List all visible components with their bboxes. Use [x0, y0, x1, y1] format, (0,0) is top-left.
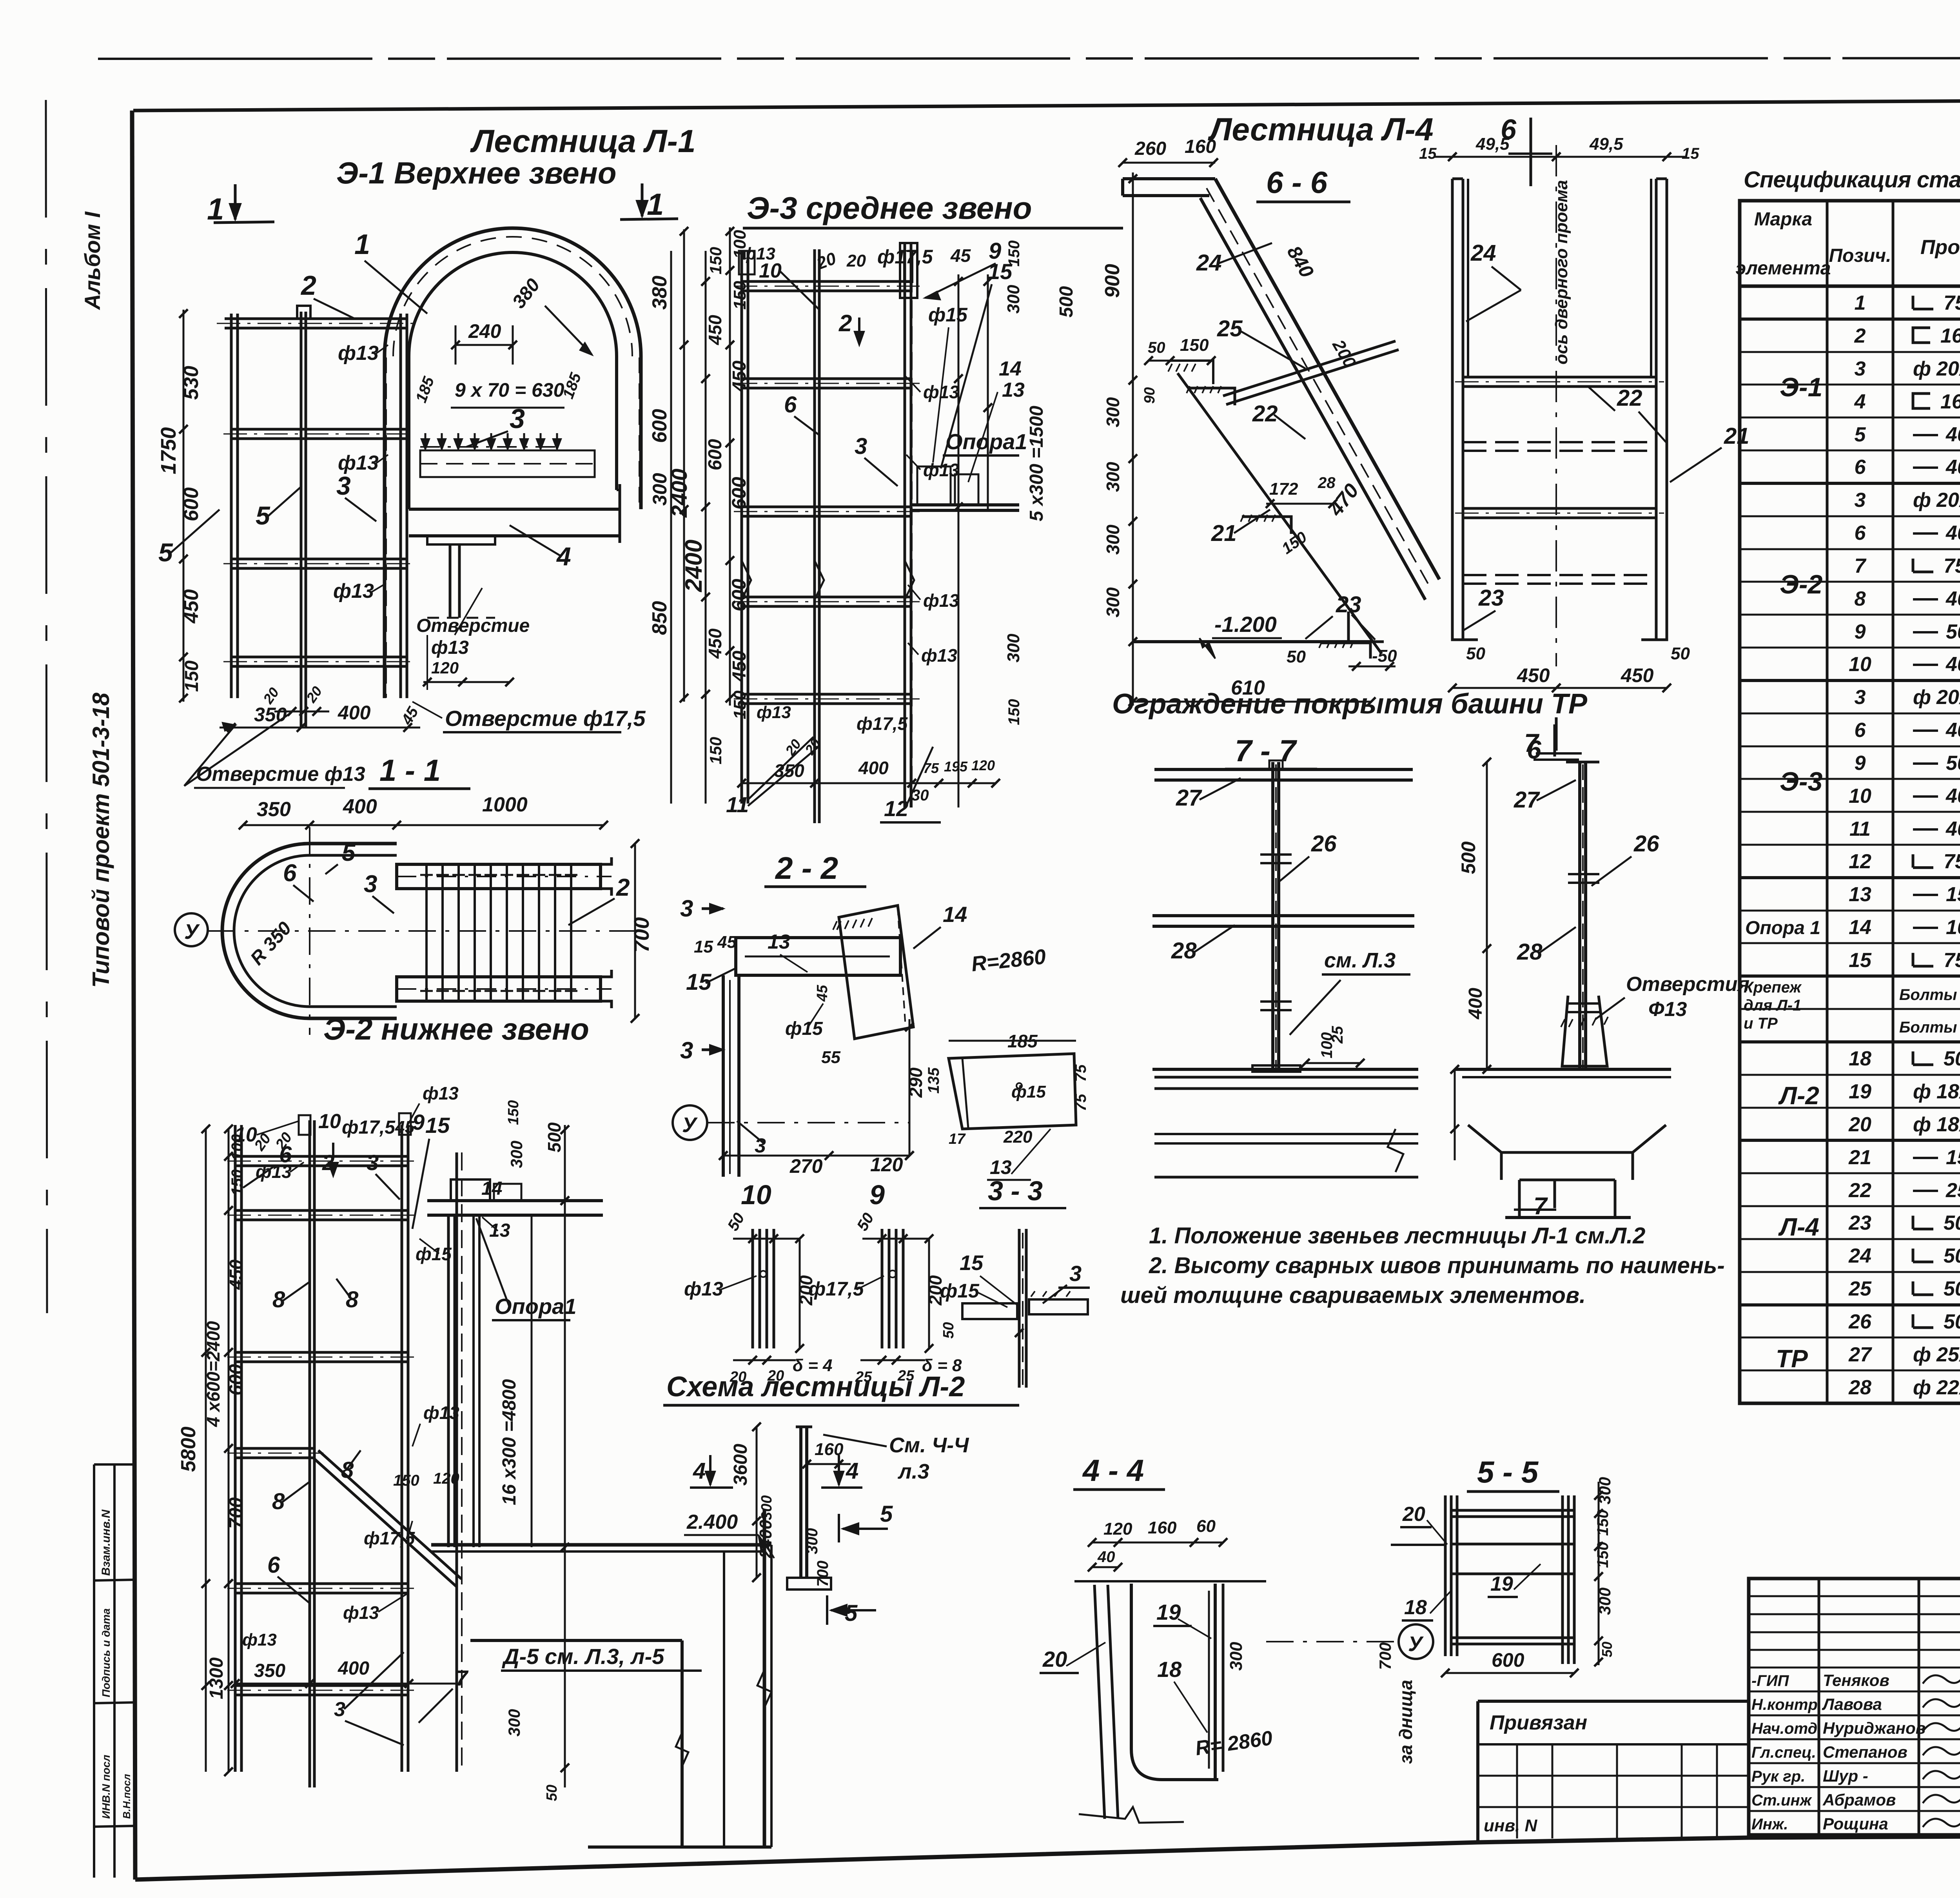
- E-2 right dim lines: [564, 1125, 566, 1787]
- L-4 step 2: [1242, 517, 1291, 534]
- svg-text:20: 20: [1042, 1647, 1067, 1671]
- svg-text:3: 3: [364, 871, 377, 898]
- svg-text:ф13: ф13: [242, 1630, 277, 1649]
- svg-text:1 - 1: 1 - 1: [379, 753, 441, 788]
- E-3 right dim lines: [958, 274, 960, 807]
- 7-7 post: [1271, 762, 1274, 1071]
- svg-text:Н.контр: Н.контр: [1751, 1696, 1818, 1713]
- svg-text:1: 1: [647, 187, 664, 221]
- svg-text:ось дверного проема: ось дверного проема: [1552, 180, 1571, 365]
- E-2 opora post: [447, 1215, 450, 1547]
- svg-text:15: 15: [1682, 145, 1699, 162]
- svg-text:160: 160: [815, 1440, 844, 1459]
- svg-text:Подпись и дата: Подпись и дата: [100, 1608, 112, 1697]
- svg-text:14: 14: [1849, 916, 1871, 939]
- elevation rail 1: [1463, 376, 1656, 379]
- L-2 dim left: [756, 1427, 758, 1578]
- main frame left: [132, 111, 135, 1880]
- E-2 right rail: [401, 1125, 403, 1772]
- svg-text:600: 600: [1492, 1649, 1524, 1671]
- section 3-3 bars: [1018, 1229, 1021, 1388]
- coordination circle U 4-4: [1399, 1624, 1433, 1659]
- svg-text:19: 19: [1849, 1080, 1871, 1103]
- svg-text:9: 9: [1855, 752, 1866, 775]
- svg-text:ф13: ф13: [423, 1083, 459, 1103]
- E-3 rail top caps: [739, 251, 755, 274]
- TR right post: [1578, 762, 1581, 1069]
- svg-text:1300: 1300: [206, 1657, 227, 1699]
- svg-text:21: 21: [1211, 521, 1237, 546]
- svg-text:В.Н.посл: В.Н.посл: [121, 1774, 132, 1819]
- E-3 middle stile: [813, 249, 816, 823]
- 4-4 channel element 18: [1131, 1584, 1218, 1780]
- svg-text:Инж.: Инж.: [1751, 1816, 1788, 1833]
- main frame bottom: [135, 1834, 1960, 1880]
- 5-5 left reference line: [1391, 1544, 1445, 1546]
- svg-text:28: 28: [1318, 474, 1336, 492]
- svg-text:ф: ф: [1913, 1080, 1931, 1103]
- svg-text:195: 195: [944, 758, 968, 775]
- TR right foundation: [1455, 1068, 1671, 1071]
- 4-4 strip element 20: [1094, 1585, 1105, 1819]
- svg-text:24: 24: [1470, 240, 1496, 266]
- 5-5 bar 2: [1451, 1543, 1574, 1546]
- svg-text:500: 500: [1056, 286, 1077, 318]
- svg-text:4 - 4: 4 - 4: [1082, 1453, 1144, 1488]
- svg-text:350: 350: [257, 798, 291, 821]
- svg-text:ф15: ф15: [785, 1018, 823, 1039]
- margin stamp boxes bottom-left: [93, 1464, 95, 1878]
- svg-text:13: 13: [489, 1220, 510, 1241]
- svg-text:ф: ф: [1913, 1376, 1931, 1399]
- svg-text:10: 10: [1849, 653, 1871, 676]
- svg-text:40×4: 40×4: [1945, 719, 1960, 742]
- svg-text:75×6: 75×6: [1944, 850, 1960, 873]
- svg-text:18АI: 18АI: [1936, 1113, 1960, 1136]
- 5-5 bar 4: [1451, 1637, 1574, 1639]
- svg-text:150: 150: [706, 247, 725, 274]
- svg-text:18АI: 18АI: [1936, 1080, 1960, 1103]
- svg-text:ф13: ф13: [431, 637, 469, 658]
- svg-text:2: 2: [300, 270, 316, 301]
- axis line door: [1555, 145, 1557, 666]
- svg-text:50: 50: [1599, 1642, 1615, 1657]
- dim 50 150: [1149, 360, 1211, 362]
- svg-text:Э-2: Э-2: [1780, 570, 1823, 599]
- svg-text:120: 120: [1103, 1519, 1132, 1539]
- svg-text:40×4: 40×4: [1945, 785, 1960, 807]
- svg-text:14: 14: [943, 902, 967, 927]
- dim 9x70=630: [451, 407, 564, 409]
- svg-text:28: 28: [1517, 939, 1543, 965]
- svg-text:1750: 1750: [157, 427, 180, 474]
- E-3 right rail: [904, 243, 906, 807]
- E-2 left rail: [234, 1125, 237, 1772]
- svg-text:3: 3: [510, 403, 525, 434]
- svg-text:18: 18: [1157, 1657, 1182, 1682]
- arch left leg: [383, 356, 387, 698]
- svg-text:22АI: 22АI: [1936, 1376, 1960, 1399]
- E-3 left dim chain: [705, 251, 707, 804]
- svg-text:270: 270: [789, 1155, 823, 1177]
- svg-text:60: 60: [1196, 1517, 1216, 1536]
- svg-text:50: 50: [1466, 644, 1485, 663]
- svg-text:10: 10: [741, 1179, 771, 1210]
- svg-text:Отверстие ф17,5: Отверстие ф17,5: [445, 706, 646, 731]
- E-2 middle stile: [309, 1120, 311, 1787]
- svg-text:-ГИП: -ГИП: [1751, 1672, 1789, 1689]
- svg-text:50×8: 50×8: [1946, 752, 1960, 775]
- E-1 right dim line inner: [683, 229, 685, 702]
- svg-text:2: 2: [838, 310, 852, 336]
- svg-text:Л-4: Л-4: [1778, 1213, 1819, 1241]
- svg-text:400: 400: [338, 702, 371, 724]
- 7-7 breaks on post: [1260, 855, 1292, 863]
- E-2 left dim chain: [205, 1129, 207, 1772]
- E-3 left rail: [740, 251, 743, 804]
- svg-text:700: 700: [1376, 1642, 1394, 1670]
- svg-text:28: 28: [1171, 938, 1197, 964]
- svg-text:Типовой проект 501-3-18: Типовой проект 501-3-18: [88, 692, 114, 988]
- svg-text:ф13: ф13: [923, 382, 959, 402]
- svg-text:ф: ф: [1913, 686, 1931, 709]
- dim 700 right: [634, 843, 636, 1019]
- svg-text:Нуриджанов: Нуриджанов: [1823, 1719, 1926, 1737]
- E-2 rung 3: [235, 1351, 409, 1354]
- svg-text:150×6: 150×6: [1946, 1146, 1960, 1169]
- privyazan box: [1478, 1700, 1749, 1703]
- svg-text:9 х 70 = 630: 9 х 70 = 630: [455, 379, 564, 401]
- svg-text:19: 19: [1490, 1573, 1513, 1595]
- svg-text:9: 9: [1855, 621, 1866, 643]
- L-4 elevation ladder right rails: [1451, 179, 1454, 640]
- 1-1 horseshoe inner: [234, 855, 397, 1007]
- TR gusset trapezoid: [1562, 996, 1607, 1066]
- svg-text:260: 260: [1134, 138, 1166, 159]
- anchors row element 3: [420, 446, 559, 448]
- svg-text:Степанов: Степанов: [1823, 1743, 1907, 1761]
- TR right post breaks: [1568, 874, 1599, 883]
- svg-text:40×4: 40×4: [1945, 522, 1960, 544]
- svg-text:23: 23: [1336, 592, 1361, 617]
- svg-text:ф: ф: [1913, 1343, 1931, 1366]
- svg-text:75×6: 75×6: [1944, 949, 1960, 972]
- coordination circle U 2-2: [673, 1105, 707, 1140]
- svg-text:7 - 7: 7 - 7: [1235, 733, 1298, 768]
- svg-text:100×10: 100×10: [1946, 916, 1960, 939]
- E-1 ladder middle stile: [300, 312, 303, 728]
- svg-text:21: 21: [1848, 1146, 1871, 1169]
- svg-text:100: 100: [1318, 1032, 1336, 1058]
- svg-text:Шур -: Шур -: [1823, 1767, 1868, 1785]
- section 9 bars: [881, 1229, 884, 1348]
- svg-text:Э-3: Э-3: [1780, 767, 1823, 797]
- 2-2 gusset 14 slanted: [839, 905, 913, 1039]
- svg-text:4: 4: [846, 1458, 858, 1484]
- elevation rail 3: [1463, 507, 1656, 510]
- svg-text:Рощина: Рощина: [1823, 1815, 1888, 1833]
- svg-text:15: 15: [694, 937, 713, 956]
- 1-1 rungs plan: [425, 864, 428, 1002]
- svg-text:40×4: 40×4: [1945, 653, 1960, 676]
- svg-text:150: 150: [1005, 699, 1023, 725]
- svg-text:за днища: за днища: [1396, 1680, 1416, 1764]
- svg-text:14: 14: [481, 1178, 502, 1199]
- svg-text:150: 150: [1005, 240, 1023, 267]
- svg-text:1. Положение звеньев лестницы: 1. Положение звеньев лестницы Л-1 см.Л.2: [1149, 1223, 1645, 1248]
- svg-text:700: 700: [226, 1497, 247, 1529]
- svg-text:13: 13: [1849, 883, 1871, 906]
- 1-1 top dim line: [243, 824, 604, 826]
- svg-text:3600: 3600: [730, 1444, 751, 1486]
- svg-text:380: 380: [648, 276, 671, 310]
- svg-text:ф17,5: ф17,5: [857, 713, 908, 734]
- E-2 rung 4: [235, 1447, 316, 1450]
- L-4 small hatch mid: [1170, 361, 1213, 384]
- svg-text:300: 300: [1595, 1477, 1614, 1504]
- svg-text:40×4: 40×4: [1945, 588, 1960, 610]
- bar element 4 horizontal: [409, 508, 620, 511]
- dim 20 20 bottom stile: [274, 711, 329, 713]
- svg-text:300: 300: [1103, 462, 1123, 492]
- svg-text:ф13: ф13: [921, 645, 957, 666]
- E-1 rung at 1426: [231, 558, 408, 561]
- svg-text:15: 15: [1849, 949, 1872, 972]
- E-3 bottom cluster: [742, 782, 996, 784]
- 7-7 mid bar 28: [1152, 914, 1414, 917]
- svg-text:50×8: 50×8: [1946, 621, 1960, 643]
- svg-text:ф15: ф15: [940, 1280, 980, 1302]
- svg-text:50×5: 50×5: [1944, 1310, 1960, 1333]
- svg-text:19: 19: [1156, 1600, 1181, 1624]
- L-4 step 1: [1188, 388, 1235, 405]
- svg-text:600: 600: [226, 1364, 247, 1395]
- svg-text:18: 18: [1404, 1596, 1427, 1619]
- E-2 bottom wall lines: [588, 1845, 771, 1849]
- svg-text:45: 45: [395, 1118, 414, 1137]
- L-4 top channel: [1123, 177, 1215, 180]
- svg-text:У: У: [682, 1113, 698, 1137]
- svg-text:15: 15: [1419, 145, 1437, 162]
- svg-text:6: 6: [784, 392, 797, 417]
- svg-text:5: 5: [342, 839, 356, 866]
- svg-text:8: 8: [1855, 588, 1866, 610]
- E-2 cage stile dashed: [456, 1152, 458, 1772]
- E-2 rung 2: [235, 1209, 409, 1212]
- svg-text:3: 3: [855, 434, 867, 459]
- svg-text:20: 20: [846, 251, 866, 270]
- svg-text:9: 9: [869, 1179, 885, 1210]
- 4-4 rod element 19: [1208, 1591, 1210, 1769]
- svg-text:2: 2: [1854, 325, 1866, 347]
- svg-text:450: 450: [705, 315, 725, 345]
- L-2 base plate: [787, 1578, 831, 1590]
- elevation top dims: [1435, 156, 1686, 158]
- E-3 rung 3: [742, 506, 912, 508]
- svg-text:Отверстие ф13: Отверстие ф13: [196, 763, 365, 786]
- svg-text:290: 290: [906, 1067, 926, 1098]
- dashed rectangle grating: [420, 450, 595, 477]
- svg-text:300: 300: [1004, 633, 1023, 662]
- section 10 bars: [751, 1229, 754, 1348]
- svg-text:17: 17: [949, 1131, 966, 1147]
- 5-5 right post: [1561, 1495, 1564, 1664]
- svg-text:11: 11: [726, 792, 749, 817]
- 2-2 horizontal channel: [736, 938, 900, 975]
- svg-text:20: 20: [1402, 1503, 1425, 1526]
- svg-text:22: 22: [1252, 401, 1278, 426]
- svg-text:172: 172: [1269, 479, 1298, 499]
- table header bottom line: [1740, 285, 1960, 288]
- svg-text:700: 700: [814, 1560, 831, 1587]
- section 10 dims: [733, 1238, 800, 1240]
- svg-text:700: 700: [630, 917, 653, 953]
- svg-text:1000: 1000: [482, 793, 528, 816]
- E-2 rung 1: [235, 1155, 409, 1158]
- svg-text:20АI: 20АI: [1936, 489, 1960, 512]
- 4-4 reference line: [1074, 1580, 1266, 1582]
- 1-1 plan bottom channel: [397, 977, 601, 1001]
- title block outer: [1749, 1579, 1960, 1835]
- svg-text:Марка: Марка: [1754, 209, 1812, 230]
- svg-text:160: 160: [1148, 1518, 1177, 1537]
- E-2 bottom dim: [235, 1683, 462, 1685]
- svg-text:6: 6: [279, 1142, 292, 1167]
- E-2 rung 5: [235, 1582, 409, 1585]
- svg-text:24: 24: [1196, 250, 1222, 276]
- svg-text:7: 7: [456, 1666, 469, 1690]
- plate 13 detail: [949, 1054, 1076, 1129]
- 1-1 vertical centerline: [309, 827, 310, 1035]
- svg-text:6: 6: [1855, 456, 1866, 479]
- svg-text:ф15: ф15: [928, 304, 968, 326]
- svg-text:27: 27: [1514, 787, 1540, 813]
- svg-text:20АI: 20АI: [1936, 686, 1960, 709]
- svg-text:16: 16: [1940, 325, 1960, 347]
- svg-text:120: 120: [870, 1154, 903, 1176]
- svg-text:ф13: ф13: [338, 342, 379, 365]
- E-3 rung 1: [742, 280, 912, 283]
- svg-text:Позич.: Позич.: [1829, 245, 1891, 266]
- svg-text:40×4: 40×4: [1945, 456, 1960, 479]
- svg-text:Э-2 нижнее звено: Э-2 нижнее звено: [323, 1012, 589, 1046]
- svg-text:для Л-1: для Л-1: [1744, 997, 1801, 1014]
- svg-text:600: 600: [705, 439, 726, 470]
- svg-text:45: 45: [717, 933, 737, 952]
- svg-text:45: 45: [814, 985, 831, 1002]
- svg-text:55: 55: [821, 1048, 840, 1067]
- svg-text:450: 450: [180, 589, 203, 624]
- svg-text:Отверстия: Отверстия: [1626, 973, 1749, 996]
- svg-text:У: У: [184, 920, 200, 944]
- svg-text:ф17,5: ф17,5: [364, 1528, 416, 1548]
- 5-5 bar 1: [1451, 1509, 1574, 1512]
- svg-text:40: 40: [1097, 1548, 1115, 1566]
- L-4 bottom dims: [1348, 666, 1396, 668]
- svg-text:15: 15: [425, 1113, 450, 1138]
- svg-text:Ф13: Ф13: [1648, 998, 1687, 1021]
- svg-text:27: 27: [1176, 785, 1202, 811]
- svg-text:3: 3: [680, 895, 693, 922]
- svg-text:Схема лестницы Л-2: Схема лестницы Л-2: [666, 1371, 965, 1403]
- left sheet edge line: [46, 100, 47, 1313]
- svg-text:23: 23: [1848, 1212, 1871, 1234]
- E-1 ladder right rail: [399, 314, 402, 698]
- 7-7 base plate: [1252, 1065, 1300, 1072]
- svg-text:850: 850: [648, 601, 671, 635]
- svg-text:450: 450: [226, 1259, 246, 1290]
- svg-text:135: 135: [925, 1067, 942, 1094]
- svg-text:6 - 6: 6 - 6: [1266, 165, 1328, 200]
- svg-text:см. Л.3: см. Л.3: [1324, 949, 1396, 972]
- svg-text:450: 450: [1517, 664, 1550, 686]
- table row lines: [1740, 318, 1960, 320]
- svg-text:Рук гр.: Рук гр.: [1751, 1768, 1805, 1785]
- svg-text:150: 150: [706, 737, 725, 764]
- svg-text:90: 90: [1142, 387, 1158, 404]
- svg-text:350: 350: [254, 1660, 285, 1681]
- svg-text:75: 75: [1072, 1094, 1089, 1111]
- 5-5 left post: [1444, 1495, 1447, 1656]
- svg-text:12: 12: [884, 796, 908, 821]
- svg-text:530: 530: [180, 366, 203, 400]
- section mark 1 left: [234, 184, 237, 220]
- svg-text:ф13: ф13: [338, 452, 379, 474]
- svg-text:160: 160: [1185, 136, 1216, 157]
- svg-text:2 - 2: 2 - 2: [775, 851, 838, 885]
- 2-2 weld hatch: [833, 918, 872, 930]
- 5-5 dims right: [1598, 1482, 1600, 1665]
- svg-text:1: 1: [354, 229, 370, 260]
- svg-text:300: 300: [505, 1709, 523, 1737]
- table outer grid: [1740, 201, 1960, 1403]
- svg-text:3: 3: [1855, 489, 1866, 512]
- title block signature rows: [1749, 1691, 1960, 1693]
- svg-text:инв. N: инв. N: [1484, 1816, 1537, 1835]
- E-3 cage dash: [911, 274, 913, 807]
- E-2 opora bracket: [427, 1199, 603, 1202]
- L-4 step 3: [1320, 643, 1370, 659]
- svg-text:11: 11: [1849, 818, 1871, 840]
- elevation rail 4: [1463, 574, 1656, 576]
- svg-text:Крепеж: Крепеж: [1744, 979, 1802, 996]
- 2-2 vertical leg: [722, 975, 725, 1177]
- svg-text:Альбом I: Альбом I: [80, 211, 105, 310]
- svg-text:1: 1: [207, 192, 224, 226]
- svg-text:300: 300: [1227, 1642, 1246, 1671]
- svg-text:3: 3: [336, 471, 351, 500]
- svg-text:Ограждение покрытия башни ТР: Ограждение покрытия башни ТР: [1112, 688, 1588, 720]
- svg-text:У: У: [1408, 1632, 1424, 1656]
- svg-text:ф17,5: ф17,5: [342, 1117, 396, 1138]
- svg-text:300: 300: [1103, 587, 1123, 617]
- svg-text:16 х300 =4800: 16 х300 =4800: [499, 1379, 520, 1505]
- svg-text:13: 13: [1002, 379, 1025, 401]
- svg-text:25: 25: [1848, 1277, 1872, 1300]
- svg-text:26: 26: [1311, 831, 1337, 856]
- svg-text:-1.200: -1.200: [1214, 612, 1277, 637]
- svg-text:900: 900: [1101, 264, 1124, 298]
- svg-text:50: 50: [1287, 647, 1306, 666]
- svg-text:7: 7: [1524, 728, 1540, 757]
- 2-2 dim bottom: [723, 1155, 909, 1157]
- page number box line: [133, 98, 1960, 111]
- svg-text:ТР: ТР: [1776, 1345, 1808, 1373]
- svg-text:300: 300: [1004, 285, 1023, 314]
- E-3 break marks: [742, 561, 914, 600]
- svg-text:Абрамов: Абрамов: [1822, 1791, 1896, 1809]
- svg-text:600: 600: [180, 487, 203, 521]
